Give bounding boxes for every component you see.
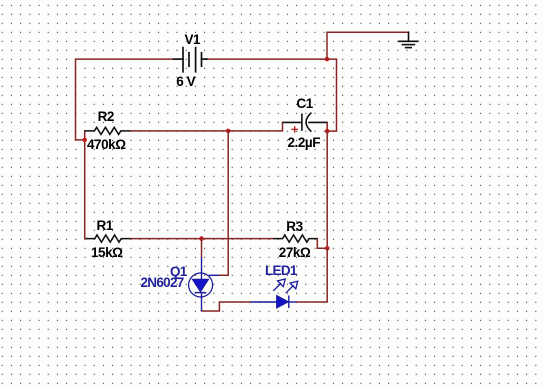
wire Q1 cathode jog to LED1 anode lead (202, 302, 251, 311)
wire J4 up and right to ground (327, 32, 409, 59)
capacitor C1 (283, 113, 328, 132)
label 2.2µF (value of C1) (288, 136, 321, 150)
junction J1 (82, 138, 87, 143)
wire J6 down to Q1 anode pin (201, 239, 203, 257)
label R3 (286, 220, 302, 234)
wire R1 right lead to R3 left lead (131, 238, 274, 240)
label Q1 (170, 265, 187, 279)
label C1 (296, 97, 312, 111)
LED LED1 (251, 295, 297, 308)
wire R2 right lead to C1 left step (130, 122, 282, 130)
wire battery V1 negative lead to left rail down to node J1 (76, 59, 174, 140)
label 2N6027 (value of Q1) (141, 276, 184, 290)
capacitor C1 plus sign (292, 126, 298, 132)
junction J6 (Q1 anode node) (199, 236, 204, 241)
wire battery V1 positive lead to node J4 (207, 58, 327, 60)
wire J3 jog right and up to node J4 (327, 59, 337, 131)
wire J5 down to LED1 cathode lead (297, 248, 328, 302)
wire J3 down right rail to junction J5 (326, 131, 328, 248)
ground (399, 32, 418, 47)
label 470kΩ (value of R2) (87, 138, 126, 152)
resistor R1 (86, 235, 131, 242)
transistor Q1 (PUT 2N6027) (189, 257, 219, 311)
label R1 (97, 219, 113, 233)
junction J2 (R2/C1 node to Q1 gate) (226, 129, 231, 134)
label R2 (98, 110, 114, 124)
junction J5 (325, 246, 330, 251)
junction J3 (325, 129, 330, 134)
wire R3 right lead step down to J5 (317, 239, 327, 249)
wire node J1 down left rail to R1 left lead (85, 140, 87, 239)
resistor R2 (85, 127, 131, 134)
label 6 V (value of V1) (176, 75, 195, 89)
wire J2 down crossing R1 row to Q1 gate elbow (219, 131, 228, 275)
label 27kΩ (value of R3) (279, 246, 311, 260)
label LED1 (265, 264, 297, 278)
label 15kΩ (value of R1) (91, 246, 123, 260)
label V1 (185, 33, 201, 47)
resistor R3 (273, 235, 317, 242)
wire stub node J1 up to R2 left lead (84, 131, 86, 140)
LED LED1 emission arrows (273, 279, 297, 293)
wire C1 right step down to junction J3 (326, 122, 328, 131)
junction J4 (325, 57, 330, 62)
battery V1 (174, 48, 207, 72)
